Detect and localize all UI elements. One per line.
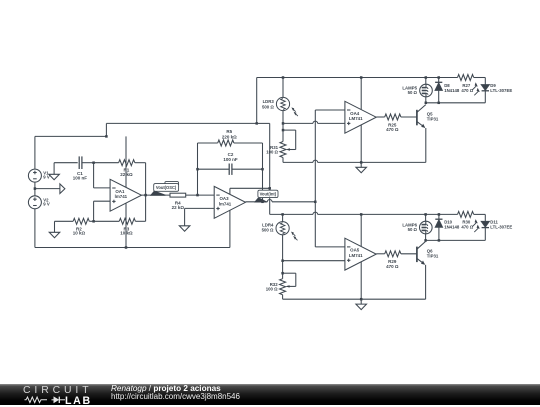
wire feedback right riser x=262.5 — [262, 143, 264, 202]
svg-text:Vout(OSC): Vout(OSC) — [156, 185, 177, 190]
wire R29 to Q6 base — [401, 253, 417, 255]
led D11 — [481, 221, 489, 227]
resistor R4 box style — [170, 193, 186, 197]
wire OA3 plus input and ground G3 — [185, 207, 215, 209]
ground G1 near C1 — [54, 162, 78, 164]
wire LDR3 bottom to node D — [282, 111, 284, 124]
wire R2 right to node B — [89, 220, 93, 222]
wire OA4 minus input — [315, 109, 345, 111]
wire OA1 V+ pin — [125, 136, 127, 187]
svg-text:LM741: LM741 — [349, 116, 363, 121]
wire +9V feed to bottom rail x=269.7 — [269, 123, 271, 214]
svg-text:OA5: OA5 — [350, 248, 360, 253]
svg-text:500 Ω: 500 Ω — [262, 104, 274, 109]
svg-text:10 kΩ: 10 kΩ — [120, 231, 133, 236]
svg-text:22 kΩ: 22 kΩ — [120, 172, 133, 177]
diode D8 — [435, 81, 442, 83]
wire C2 leads — [198, 168, 230, 170]
svg-text:100 nF: 100 nF — [73, 176, 88, 181]
wire OA5 V- pin to ground G5 — [360, 262, 362, 299]
wire LAMP5 top lead — [425, 78, 427, 85]
svg-text:50 Ω: 50 Ω — [408, 227, 418, 232]
lamp LAMP5 — [420, 84, 433, 97]
svg-text:R5: R5 — [226, 129, 232, 134]
svg-text:500 Ω: 500 Ω — [262, 228, 274, 233]
wire node B to R3 left — [94, 220, 120, 222]
svg-text:470 Ω: 470 Ω — [461, 88, 473, 93]
op-amp OA5 — [345, 238, 376, 270]
wire V1 top to +9V feed corner — [34, 136, 36, 169]
wire node D down to R31 — [282, 123, 284, 141]
diode D10 — [435, 218, 442, 220]
wire +9V feed riser to long top feed — [105, 123, 107, 136]
op-amp OA1 — [110, 179, 141, 211]
wire output riser x=145.6 — [145, 163, 147, 222]
wire OA1 plus input — [94, 200, 111, 202]
svg-text:TIP31: TIP31 — [427, 117, 439, 122]
svg-text:LDR3: LDR3 — [263, 99, 275, 104]
svg-text:LTL-307EE: LTL-307EE — [490, 225, 512, 230]
resistor R29 — [385, 251, 401, 257]
svg-text:50 Ω: 50 Ω — [408, 90, 418, 95]
wire LDR4 bottom to node E — [282, 235, 284, 261]
wire OA3 output to OA4/OA5 feed — [246, 201, 268, 203]
wire C1 right to node A — [82, 162, 94, 164]
logo diode — [54, 396, 60, 403]
svg-text:1N4148: 1N4148 — [444, 88, 460, 93]
svg-text:100 Ω: 100 Ω — [266, 286, 278, 291]
potentiometer R32 — [280, 279, 286, 295]
crossover hop ground row over x=315.3 — [313, 160, 318, 162]
svg-text:TIP31: TIP31 — [427, 253, 439, 258]
resistor R27 — [458, 75, 474, 81]
wire LDR4 top lead — [282, 214, 284, 221]
svg-text:470 Ω: 470 Ω — [461, 225, 473, 230]
wire OA5 V+ pin — [360, 214, 362, 246]
wire OA5 output to R29 — [376, 253, 385, 255]
svg-text:9 V: 9 V — [43, 202, 50, 207]
capacitor C2 — [228, 164, 230, 175]
crossover hop OA4 plus over x=315.3 — [313, 121, 318, 123]
svg-text:100 nF: 100 nF — [223, 157, 238, 162]
node junction rail riser — [255, 122, 258, 125]
wire top LED row — [426, 102, 486, 104]
wire node C feedback riser x=197.5 — [197, 143, 199, 195]
wire R32 bottom to bottom ground row — [282, 295, 284, 300]
ground G5 under OA5 — [360, 299, 362, 304]
svg-text:lm741: lm741 — [115, 194, 128, 199]
wire R25 to Q5 base — [401, 116, 417, 118]
resistor R5 — [218, 140, 234, 146]
wire +9V top rail — [257, 77, 458, 79]
wire node A down to OA1 minus — [93, 163, 95, 188]
lamp LAMP6 — [420, 221, 433, 234]
ground G2 under R2 — [54, 221, 56, 232]
svg-text:22 kΩ: 22 kΩ — [172, 205, 185, 210]
crossover hop OA3 output over x=269.7 — [267, 200, 272, 202]
svg-text:LDR4: LDR4 — [262, 222, 274, 227]
wire node D to OA4 plus input — [283, 122, 313, 124]
wire 0V bottom-left rail — [35, 247, 230, 249]
wire R31 wiper loop — [283, 129, 296, 131]
wire D8 leads — [438, 78, 440, 83]
wire V2 bottom to 0V rail — [34, 209, 36, 248]
voltage source V2 — [28, 196, 41, 209]
wire OA4 V+ pin — [360, 78, 362, 110]
wire LDR3 top lead — [282, 78, 284, 98]
wire OA4 output to R25 — [376, 116, 385, 118]
wire LAMP5 bottom to collector node — [425, 97, 427, 103]
wire LAMP6 top lead — [425, 214, 427, 221]
ground G4 under OA4 — [360, 162, 362, 167]
wire OA1 V- pin — [125, 203, 127, 247]
svg-text:OA3: OA3 — [219, 196, 229, 201]
resistor R25 — [385, 114, 401, 120]
wire OA1 output — [141, 194, 170, 196]
led D9 — [481, 85, 489, 91]
svg-text:100 Ω: 100 Ω — [266, 150, 278, 155]
wire OA5 minus input — [315, 246, 345, 248]
resistor R2 — [73, 218, 89, 224]
svg-text:OA4: OA4 — [350, 111, 360, 116]
wire R5 top leads — [198, 142, 218, 144]
photoresistor LDR4 — [276, 222, 289, 235]
transistor Q6 — [416, 247, 418, 263]
wire ground to R2 left — [55, 220, 74, 222]
wire V1 V2 junction to arrow port — [34, 182, 36, 195]
potentiometer R31 — [280, 142, 286, 158]
wire R1 right to output riser — [135, 162, 146, 164]
resistor R30 — [458, 211, 474, 217]
wire comparator feed riser x=315.3 — [314, 110, 316, 247]
wire node E down to R32 — [282, 261, 284, 279]
node A junction C1/R1/OA1- — [92, 161, 95, 164]
wire bottom LED row — [426, 239, 486, 241]
logo resistor squiggle — [25, 397, 66, 403]
wire Q6 emitter riser — [425, 265, 427, 299]
op-amp OA4 — [345, 101, 376, 133]
wire Q5 emitter riser — [425, 128, 427, 162]
wire D9 leads — [484, 78, 486, 85]
svg-text:10 kΩ: 10 kΩ — [73, 231, 86, 236]
node flag Vout(OSC) — [165, 182, 179, 187]
svg-text:470 Ω: 470 Ω — [386, 127, 399, 132]
wire OA4 V- pin to ground G4 — [360, 125, 362, 162]
op-amp OA3 — [214, 186, 245, 218]
wire node E to OA5 plus input — [283, 260, 345, 262]
wire D11 leads — [484, 214, 486, 221]
svg-text:1N4148: 1N4148 — [444, 225, 460, 230]
wire LAMP6 bottom to collector node — [425, 234, 427, 241]
resistor R3 — [119, 218, 135, 224]
capacitor C1 — [78, 156, 80, 169]
wire R3 right to output riser — [135, 220, 145, 222]
photoresistor LDR3 — [276, 97, 289, 110]
node junction V1 feed — [105, 135, 108, 138]
svg-text:9 V: 9 V — [43, 174, 50, 179]
crossover hop bottom rail over x=315.3 — [313, 212, 318, 214]
wire OA3 V- riser — [229, 210, 231, 247]
wire +9V bottom rail — [270, 213, 313, 215]
transistor Q5 — [416, 110, 418, 126]
svg-text:220 kΩ: 220 kΩ — [222, 135, 237, 140]
node C junction R4/R5/C2/OA3- — [196, 194, 199, 197]
svg-text:Vout(Int): Vout(Int) — [260, 191, 277, 196]
resistor R1 — [119, 160, 135, 166]
svg-text:OA1: OA1 — [115, 189, 125, 194]
svg-text:LTL-307EE: LTL-307EE — [490, 88, 512, 93]
wire R4 right to node C — [186, 194, 215, 196]
voltage source V1 — [28, 169, 41, 182]
wire R32 wiper loop — [283, 272, 296, 274]
wire D10 leads — [438, 214, 440, 219]
wire OA3 V+ pin — [229, 188, 231, 194]
arrow port at V1-V2 node — [60, 184, 65, 194]
wire rail riser x=256.7 — [256, 78, 258, 124]
node flag Vout(Int) — [254, 198, 267, 203]
svg-text:lm741: lm741 — [219, 201, 232, 206]
svg-text:470 Ω: 470 Ω — [386, 264, 399, 269]
svg-text:LM741: LM741 — [349, 253, 363, 258]
wire R31 bottom to ground row — [282, 158, 284, 163]
wire node A to R1 left — [94, 162, 119, 164]
